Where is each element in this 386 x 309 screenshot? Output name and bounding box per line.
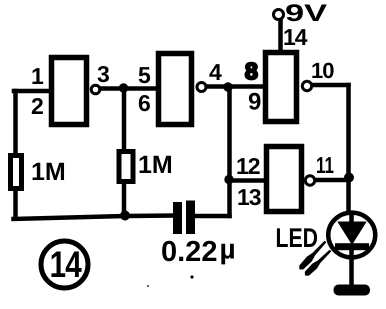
svg-text:µ: µ: [220, 234, 236, 265]
svg-text:12: 12: [236, 153, 260, 179]
svg-text:3: 3: [97, 61, 110, 87]
svg-text:9V: 9V: [285, 0, 327, 27]
svg-text:1M: 1M: [138, 151, 173, 179]
svg-text:9: 9: [248, 89, 261, 116]
svg-text:1: 1: [31, 63, 44, 89]
svg-text:LED: LED: [276, 223, 319, 253]
svg-text:4: 4: [209, 59, 222, 85]
svg-text:14: 14: [283, 24, 308, 50]
svg-text:10: 10: [311, 58, 334, 83]
svg-text:14: 14: [50, 244, 82, 285]
svg-text:2: 2: [31, 93, 44, 119]
svg-text:0.22: 0.22: [161, 236, 217, 268]
svg-text:8: 8: [245, 58, 258, 84]
svg-text:6: 6: [138, 90, 151, 116]
svg-text:1M: 1M: [31, 158, 66, 186]
svg-text:11: 11: [316, 152, 334, 178]
svg-text:13: 13: [237, 184, 261, 210]
svg-text:5: 5: [138, 62, 151, 88]
